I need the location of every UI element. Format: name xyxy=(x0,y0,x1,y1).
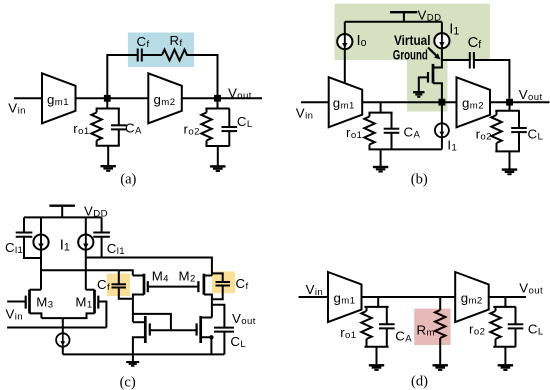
svg-text:Ground: Ground xyxy=(393,47,428,62)
svg-text:(b): (b) xyxy=(411,172,428,188)
svg-text:(a): (a) xyxy=(120,172,136,188)
svg-text:(c): (c) xyxy=(120,375,136,390)
svg-text:(d): (d) xyxy=(411,374,428,390)
svg-text:Virtual: Virtual xyxy=(394,33,431,48)
